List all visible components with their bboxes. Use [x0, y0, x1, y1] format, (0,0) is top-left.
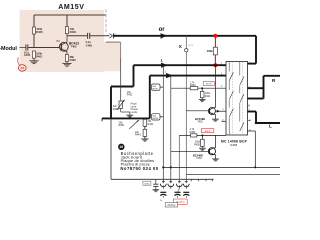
wire between resistors	[144, 126, 146, 129]
svg-text:R451: R451	[119, 124, 125, 127]
rail ticks	[190, 179, 192, 181]
wire red upper	[214, 38, 216, 48]
svg-text:No78750 024 00: No78750 024 00	[120, 166, 158, 171]
junction dot R450	[201, 134, 203, 136]
wire R454 to IC	[197, 134, 226, 136]
wire C408 to connector	[90, 35, 110, 37]
wire or-rail right corner down	[255, 36, 257, 64]
tick at left end	[101, 118, 103, 121]
wire R output (thick)	[248, 87, 264, 89]
transistor T400 BC413	[59, 42, 68, 51]
svg-text:am-fl: am-fl	[205, 130, 211, 133]
wire base	[28, 47, 60, 49]
wire red lower	[214, 55, 216, 64]
wire L (thick)	[134, 64, 227, 66]
wire R405 to base node	[33, 34, 35, 48]
wire R402 to ground	[66, 62, 68, 64]
svg-text:R443: R443	[135, 134, 141, 137]
wire pot top	[120, 87, 122, 102]
svg-text:(5x47u): (5x47u)	[168, 205, 176, 207]
ground under pot	[126, 114, 133, 116]
transistor T451 BC548D	[208, 148, 215, 155]
resistor R441	[200, 91, 204, 97]
svg-text:Pegel: Pegel	[131, 104, 137, 106]
wire Ro corner down	[149, 76, 151, 119]
ground below rail cap	[152, 189, 159, 191]
svg-text:Livello: Livello	[131, 112, 138, 114]
wire to R442	[171, 87, 190, 89]
svg-text:A3: A3	[20, 66, 24, 70]
ground below R441	[199, 99, 206, 101]
resistor R402	[65, 55, 68, 62]
socket connector 3	[176, 184, 182, 187]
ground below T452	[212, 118, 219, 120]
junction dot R441	[201, 87, 203, 89]
svg-text:R442: R442	[190, 84, 196, 87]
svg-text:R400: R400	[70, 30, 77, 34]
wire jack top (thick)	[102, 117, 150, 119]
capacitor at rail left	[155, 179, 157, 184]
wire bus2	[170, 76, 172, 184]
wire or-rail (thick)	[114, 35, 256, 37]
capacitor C408	[87, 33, 89, 39]
wire L output (thick)	[248, 111, 257, 113]
socket connector 2	[168, 184, 174, 187]
svg-text:T452: T452	[197, 121, 203, 124]
wire R448 right	[160, 86, 163, 88]
red marker A3	[18, 65, 26, 72]
wire pin10 down	[248, 130, 256, 132]
pot R403	[119, 101, 122, 109]
wire top rail of module	[34, 14, 106, 16]
pin tick y105.5	[248, 105, 250, 107]
resistor R454	[191, 134, 197, 137]
wire R400 to collector node	[66, 34, 68, 36]
ground below R443	[141, 138, 148, 140]
junction dot rail1	[254, 166, 256, 168]
jack box bottom rail	[111, 178, 214, 180]
red label box am-fl lower	[201, 129, 214, 133]
red label box am-fl upper	[203, 82, 214, 86]
svg-text:R403: R403	[113, 108, 119, 111]
resistor R405	[32, 27, 35, 34]
wire into pin 4	[248, 63, 257, 65]
socket connector 1	[160, 184, 166, 187]
junction dot bus2	[170, 75, 172, 77]
wire R401 to ground	[33, 58, 35, 60]
svg-text:R448: R448	[153, 88, 159, 90]
resistor R449	[152, 114, 161, 120]
svg-text:MC 14066 BCP: MC 14066 BCP	[221, 139, 248, 143]
wire emitter T452 down	[214, 114, 216, 119]
wire to R454	[179, 134, 190, 136]
arrow on or-rail	[161, 33, 168, 38]
wire base T451	[171, 150, 210, 152]
wire Ro (thick)	[150, 75, 226, 77]
wire R441 to ground	[201, 98, 203, 100]
wire emitter T451 down	[215, 155, 217, 159]
svg-text:Level: Level	[131, 106, 137, 108]
wire R449 right	[160, 116, 163, 118]
wire L corner down	[133, 65, 135, 86]
wire collector to C408	[67, 35, 88, 37]
wire left vertical to R405	[33, 15, 35, 27]
wire stub R440	[144, 117, 146, 120]
svg-text:am-fl: am-fl	[206, 83, 212, 86]
junction dot L out	[255, 122, 257, 124]
svg-text:T400: T400	[71, 45, 77, 49]
svg-text:R402: R402	[127, 95, 133, 97]
wire base T452	[186, 110, 209, 112]
wire T452 to pin 5	[215, 110, 226, 112]
test point circle	[185, 49, 188, 52]
svg-text:R449: R449	[153, 118, 159, 120]
wire collector T451 up	[215, 135, 217, 148]
ground below T451	[212, 158, 219, 160]
wire corner x179	[178, 135, 180, 183]
wire R442 to IC pin 2	[198, 87, 226, 89]
svg-text:R450: R450	[194, 143, 200, 146]
svg-text:100k: 100k	[207, 49, 213, 53]
svg-text:C405: C405	[24, 53, 31, 57]
capacitor bottom 1	[160, 191, 166, 193]
connector symbol	[110, 34, 113, 38]
wire to R450	[201, 135, 203, 139]
rail upper	[163, 166, 280, 168]
svg-text:R454: R454	[190, 131, 196, 134]
pin stub y121	[222, 120, 227, 122]
module background (pink scan area)	[20, 10, 105, 72]
IC internal dashed lines	[231, 62, 233, 135]
resistor R443	[143, 129, 147, 136]
connector bracket	[106, 41, 121, 43]
capacitor bottom 3	[183, 191, 189, 193]
svg-text:IC458: IC458	[230, 143, 238, 147]
svg-text:R405: R405	[36, 30, 43, 34]
jack box left edge	[110, 118, 112, 179]
svg-text:T451: T451	[196, 157, 202, 160]
ground below R450	[199, 147, 206, 149]
wire test line down to sockets	[185, 52, 187, 183]
wire bus1	[162, 65, 164, 183]
resistor 100k	[213, 47, 217, 55]
transistor T452 BC548B	[208, 108, 215, 115]
resistor R442	[190, 87, 198, 90]
label 5x47u	[165, 203, 178, 207]
wire L corner down 2	[110, 87, 112, 119]
IC internal switches	[228, 61, 230, 72]
junction dot rail1 left	[162, 166, 164, 168]
resistor R400	[65, 27, 68, 34]
junction dot (red) on L wire	[213, 63, 217, 67]
junction dot (red) top	[213, 34, 217, 38]
wire module input	[20, 47, 26, 49]
wire collector T452 up to red dot	[214, 65, 216, 108]
red label 2x47u	[173, 199, 187, 204]
resistor R450	[201, 139, 205, 146]
resistor R448	[152, 84, 161, 90]
svg-text:L: L	[269, 124, 272, 129]
wire pot bottom	[120, 109, 122, 113]
svg-text:AM15V: AM15V	[58, 4, 84, 11]
svg-text:C408: C408	[86, 43, 93, 47]
svg-text:R440: R440	[148, 124, 154, 126]
wire test point vertical	[185, 36, 187, 49]
svg-text:or: or	[159, 27, 166, 33]
svg-text:+4,7V: +4,7V	[188, 45, 194, 47]
arrow on L wire	[161, 63, 168, 68]
pin tick y120.7	[248, 120, 250, 122]
arrow on Ro wire	[166, 73, 173, 78]
svg-text:R401: R401	[36, 54, 43, 58]
circled 16	[118, 144, 124, 150]
junction dot branch	[162, 64, 164, 66]
wire from bracket down	[120, 42, 122, 58]
wire to R441	[201, 88, 203, 91]
wire right vertical to R400	[66, 15, 68, 27]
svg-text:Niveau: Niveau	[131, 109, 139, 111]
svg-text:16: 16	[119, 145, 123, 149]
ground below R401	[29, 60, 38, 62]
resistor R440	[143, 119, 147, 126]
resistor R401	[32, 51, 35, 58]
capacitor C405	[25, 44, 27, 50]
pot arrow 20k R451	[129, 120, 138, 129]
svg-text:50Hz: 50Hz	[144, 183, 149, 185]
capacitor bottom 2	[175, 191, 181, 193]
label 50Hz box	[143, 181, 151, 185]
module boundary dashes	[105, 10, 107, 34]
socket connector 4	[183, 184, 189, 187]
svg-text:R402: R402	[70, 58, 77, 62]
junction dot rail1 bus2	[170, 166, 172, 168]
wire L corner left	[111, 86, 134, 88]
IC box MC14066	[226, 62, 248, 136]
svg-text:R441: R441	[205, 95, 211, 98]
rail lower	[186, 173, 280, 175]
ground below R402	[62, 62, 71, 64]
wire R450 to ground	[201, 146, 203, 148]
wire R443 to ground	[144, 137, 146, 139]
svg-text:-Modul: -Modul	[0, 46, 17, 52]
